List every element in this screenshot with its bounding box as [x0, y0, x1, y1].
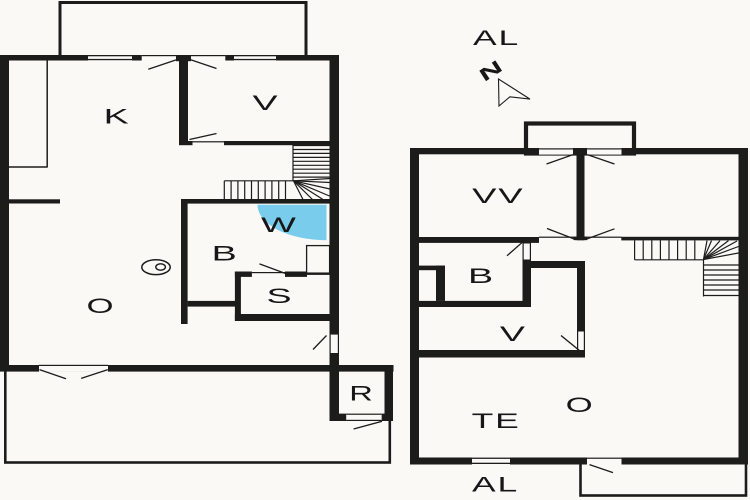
- V bottom wall with door: [179, 134, 330, 146]
- room label V: [500, 322, 526, 346]
- bar between B and V right walls: [528, 261, 585, 268]
- room label VV: [472, 184, 524, 208]
- vertical flight: [292, 145, 294, 181]
- fixture box in W: [307, 246, 330, 274]
- balcony bottom right: [581, 462, 747, 496]
- outer top wall: [410, 148, 748, 154]
- outer top wall: [0, 55, 339, 61]
- svg-text:AL: AL: [472, 472, 519, 496]
- labels right plan: [468, 184, 593, 433]
- K closet thin lines: [46, 60, 48, 167]
- svg-text:B: B: [212, 242, 237, 266]
- room label V: [252, 91, 278, 115]
- room label O: [566, 394, 593, 418]
- window V in top wall: [234, 55, 276, 61]
- terrace bottom (thin outline): [5, 369, 390, 463]
- VV bottom wall: [410, 237, 539, 243]
- room label O: [86, 294, 113, 318]
- VV door + right room door (thin face line + leaves): [539, 229, 622, 240]
- central wall: [577, 148, 585, 240]
- S top wall with door: [235, 264, 307, 277]
- horizontal flight: [224, 180, 293, 182]
- svg-text:B: B: [468, 264, 493, 288]
- top wall door openings under bump: [539, 148, 622, 164]
- svg-text:S: S: [266, 284, 291, 308]
- labels left plan: [86, 91, 372, 405]
- svg-text:O: O: [566, 394, 593, 418]
- hall/B top wall: [181, 199, 330, 204]
- svg-text:W: W: [261, 213, 296, 236]
- B right wall with door: [507, 237, 532, 307]
- door in right wall (to outside): [313, 335, 339, 353]
- outer right wall: [330, 55, 340, 372]
- svg-text:R: R: [349, 381, 373, 405]
- room label B: [468, 264, 493, 288]
- S thin top wall right part: [307, 272, 330, 275]
- stairs left plan: [224, 145, 330, 200]
- compass north arrow: [499, 79, 531, 106]
- outer bottom wall: [0, 365, 394, 372]
- room label R: [349, 381, 373, 405]
- svg-text:V: V: [500, 322, 526, 346]
- compass letter N (rotated): [475, 56, 506, 86]
- AL labels and compass: [472, 26, 520, 497]
- K/V dividing wall: [179, 55, 188, 145]
- R room left wall: [330, 353, 340, 421]
- B closet bars: [419, 266, 445, 271]
- label AL bottom: [472, 472, 519, 496]
- V bottom wall: [410, 350, 585, 358]
- V right wall with door: [561, 261, 586, 358]
- S left wall: [235, 272, 241, 321]
- terrace double door openings in top wall: [142, 55, 226, 70]
- bottom window: [472, 457, 510, 465]
- bottom door to balcony: [587, 457, 622, 472]
- room label K: [104, 105, 130, 129]
- B left wall: [181, 199, 188, 324]
- svg-text:AL: AL: [473, 26, 520, 50]
- lamp symbol: [142, 260, 170, 275]
- svg-text:V: V: [252, 91, 278, 115]
- room label B: [212, 242, 237, 266]
- terrace top (thin outline): [60, 3, 306, 58]
- top bump: [526, 124, 634, 154]
- winder fan: [294, 179, 331, 181]
- window K in top wall: [88, 55, 132, 61]
- stairs top bar: [621, 237, 738, 241]
- fan: [704, 241, 708, 260]
- R room door leaf: [354, 421, 382, 429]
- S bottom wall: [235, 314, 330, 321]
- W door swing (blue): [258, 205, 327, 240]
- wall stub K/O: [9, 199, 60, 203]
- R room bottom wall: [330, 414, 394, 421]
- stairs right plan: [635, 240, 739, 296]
- R room right wall: [385, 365, 394, 421]
- room label TE: [472, 409, 521, 433]
- room label W: [261, 213, 296, 236]
- outer left wall: [410, 148, 419, 465]
- svg-text:O: O: [86, 294, 113, 318]
- french doors in bottom wall: [39, 365, 108, 379]
- R room door opening: [346, 413, 382, 421]
- outer bottom wall: [410, 458, 748, 465]
- label AL top: [473, 26, 520, 50]
- vertical flight: [703, 260, 705, 297]
- outer left wall: [0, 55, 9, 372]
- svg-text:VV: VV: [472, 184, 524, 208]
- svg-text:K: K: [104, 105, 130, 129]
- room label S: [266, 284, 291, 308]
- B bottom wall: [410, 301, 531, 307]
- svg-text:TE: TE: [472, 409, 521, 433]
- outer right wall: [739, 148, 749, 465]
- B bottom bar: [188, 301, 236, 307]
